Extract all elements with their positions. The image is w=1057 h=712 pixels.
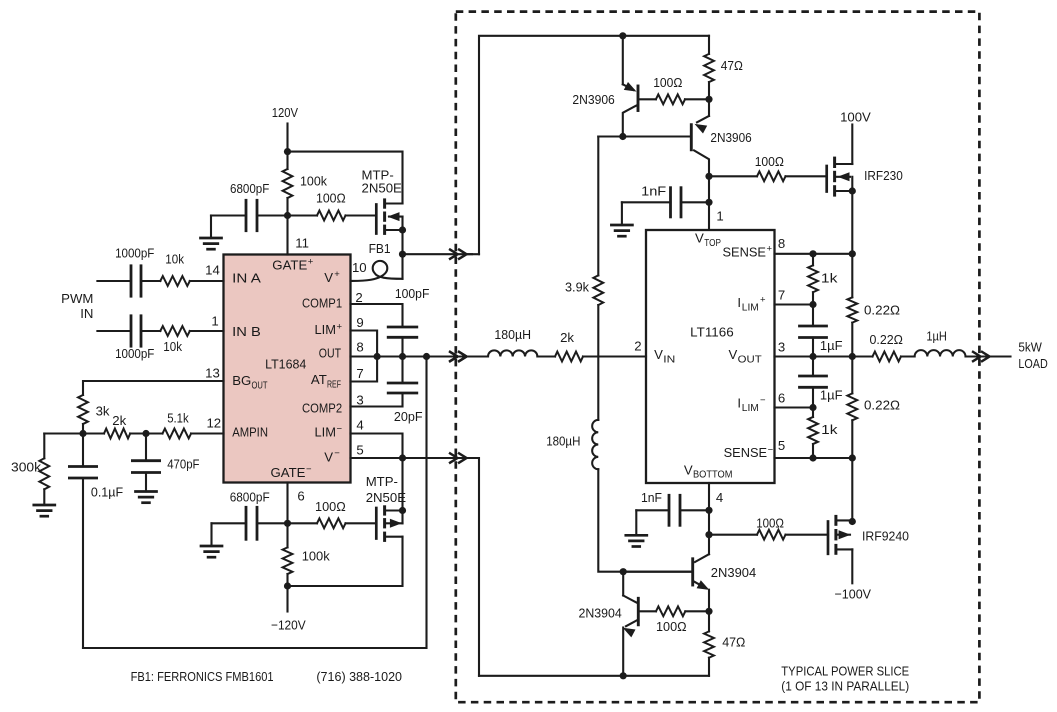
svg-text:5.1k: 5.1k — [167, 411, 189, 426]
svg-text:6: 6 — [297, 489, 304, 504]
svg-text:5: 5 — [356, 442, 363, 457]
svg-text:0.1µF: 0.1µF — [91, 485, 123, 500]
svg-text:0.22Ω: 0.22Ω — [864, 302, 900, 317]
svg-text:3.9k: 3.9k — [565, 280, 589, 295]
svg-text:6800pF: 6800pF — [230, 181, 269, 196]
svg-text:12: 12 — [206, 415, 221, 430]
svg-text:5: 5 — [778, 438, 785, 453]
svg-text:LT1684: LT1684 — [265, 356, 306, 371]
svg-text:10k: 10k — [165, 252, 184, 267]
svg-text:AT: AT — [311, 372, 327, 387]
svg-text:7: 7 — [356, 366, 363, 381]
svg-text:IN A: IN A — [232, 270, 261, 285]
svg-text:−: − — [334, 448, 340, 459]
svg-text:I: I — [737, 295, 741, 310]
svg-text:GATE: GATE — [271, 465, 306, 480]
svg-text:100Ω: 100Ω — [315, 499, 346, 514]
svg-text:0.22Ω: 0.22Ω — [870, 332, 904, 347]
svg-text:1000pF: 1000pF — [115, 246, 154, 261]
svg-text:GATE: GATE — [272, 258, 307, 273]
svg-text:4: 4 — [716, 490, 723, 505]
svg-text:3k: 3k — [96, 403, 110, 418]
svg-text:−: − — [337, 424, 343, 435]
svg-text:10: 10 — [352, 260, 367, 275]
svg-text:8: 8 — [356, 340, 363, 355]
svg-text:3: 3 — [356, 392, 363, 407]
svg-text:14: 14 — [205, 262, 220, 277]
svg-text:1µH: 1µH — [926, 329, 947, 344]
svg-text:120V: 120V — [272, 105, 298, 120]
svg-text:TOP: TOP — [704, 238, 721, 249]
svg-text:1k: 1k — [821, 271, 838, 286]
svg-text:+: + — [334, 269, 340, 280]
svg-text:4: 4 — [356, 417, 363, 432]
svg-text:BG: BG — [232, 373, 251, 388]
svg-text:SENSE: SENSE — [723, 244, 767, 259]
svg-text:10k: 10k — [163, 339, 182, 354]
svg-text:11: 11 — [295, 236, 309, 251]
svg-text:+: + — [308, 257, 314, 268]
svg-text:COMP2: COMP2 — [302, 400, 342, 415]
svg-text:V: V — [324, 449, 333, 464]
svg-text:V: V — [729, 347, 738, 362]
svg-text:IN B: IN B — [232, 324, 261, 339]
svg-text:6: 6 — [778, 391, 785, 406]
svg-text:LIM: LIM — [315, 322, 337, 337]
svg-text:2N3906: 2N3906 — [572, 92, 614, 107]
svg-text:2k: 2k — [112, 413, 126, 428]
svg-text:2N50E: 2N50E — [366, 490, 407, 505]
svg-text:1µF: 1µF — [820, 388, 843, 403]
svg-text:IN: IN — [80, 306, 93, 321]
svg-text:REF: REF — [327, 379, 341, 390]
svg-text:20pF: 20pF — [394, 409, 423, 424]
svg-text:I: I — [737, 396, 741, 411]
svg-text:13: 13 — [205, 366, 220, 381]
svg-text:3: 3 — [778, 339, 785, 354]
svg-text:1µF: 1µF — [820, 338, 843, 353]
svg-text:LIM: LIM — [742, 302, 759, 313]
svg-text:IN: IN — [663, 354, 675, 365]
svg-text:OUT: OUT — [738, 354, 762, 365]
svg-text:IRF9240: IRF9240 — [862, 528, 909, 543]
svg-text:2N3904: 2N3904 — [711, 565, 756, 580]
svg-text:6800pF: 6800pF — [230, 490, 270, 505]
svg-text:1: 1 — [716, 209, 723, 224]
svg-text:2k: 2k — [560, 330, 574, 345]
svg-text:47Ω: 47Ω — [722, 635, 745, 650]
svg-text:FB1: FERRONICS FMB1601: FB1: FERRONICS FMB1601 — [131, 669, 274, 684]
svg-text:2: 2 — [355, 290, 362, 305]
svg-text:OUT: OUT — [252, 380, 268, 391]
svg-text:−120V: −120V — [271, 618, 306, 633]
svg-text:COMP1: COMP1 — [302, 296, 342, 311]
svg-text:1nF: 1nF — [641, 183, 666, 198]
svg-text:9: 9 — [356, 315, 363, 330]
svg-text:(1 OF 13 IN PARALLEL): (1 OF 13 IN PARALLEL) — [781, 679, 909, 694]
svg-text:2N3906: 2N3906 — [710, 130, 751, 145]
svg-text:180µH: 180µH — [494, 327, 531, 342]
svg-text:2N3904: 2N3904 — [579, 605, 622, 620]
svg-text:SENSE: SENSE — [724, 445, 768, 460]
svg-text:100Ω: 100Ω — [653, 75, 682, 90]
svg-text:100Ω: 100Ω — [756, 516, 784, 531]
svg-text:AMPIN: AMPIN — [232, 424, 268, 439]
svg-text:BOTTOM: BOTTOM — [693, 470, 733, 481]
svg-text:100k: 100k — [300, 174, 327, 189]
svg-text:LOAD: LOAD — [1018, 356, 1047, 371]
svg-text:TYPICAL POWER SLICE: TYPICAL POWER SLICE — [781, 664, 909, 679]
svg-text:−100V: −100V — [835, 587, 872, 602]
svg-text:300k: 300k — [11, 460, 41, 475]
svg-text:100Ω: 100Ω — [755, 154, 784, 169]
svg-text:FB1: FB1 — [369, 241, 391, 256]
svg-text:100Ω: 100Ω — [656, 619, 687, 634]
svg-text:470pF: 470pF — [167, 457, 199, 472]
svg-text:1: 1 — [211, 314, 218, 329]
svg-text:MTP-: MTP- — [366, 474, 398, 489]
svg-text:7: 7 — [778, 287, 785, 302]
svg-text:8: 8 — [778, 236, 785, 251]
svg-text:+: + — [767, 244, 773, 255]
svg-text:2N50E: 2N50E — [362, 181, 403, 196]
svg-text:OUT: OUT — [319, 346, 341, 361]
svg-text:V: V — [684, 462, 693, 477]
svg-text:−: − — [306, 464, 312, 475]
svg-text:V: V — [654, 347, 663, 362]
svg-text:LIM: LIM — [315, 424, 337, 439]
svg-text:100Ω: 100Ω — [316, 191, 346, 206]
svg-text:−: − — [768, 444, 774, 455]
svg-text:100V: 100V — [840, 109, 871, 124]
svg-text:5kW: 5kW — [1018, 339, 1042, 354]
svg-text:47Ω: 47Ω — [721, 58, 743, 73]
svg-text:LIM: LIM — [742, 403, 759, 414]
svg-text:V: V — [324, 270, 333, 285]
svg-text:2: 2 — [634, 338, 641, 353]
svg-text:1k: 1k — [821, 422, 838, 437]
svg-text:LT1166: LT1166 — [690, 324, 734, 339]
svg-text:V: V — [695, 231, 704, 246]
svg-text:PWM: PWM — [61, 291, 93, 306]
svg-text:IRF230: IRF230 — [864, 168, 903, 183]
svg-text:+: + — [760, 295, 766, 306]
svg-text:(716) 388-1020: (716) 388-1020 — [316, 669, 402, 684]
svg-text:+: + — [337, 322, 343, 333]
svg-text:1nF: 1nF — [641, 490, 662, 505]
svg-text:100k: 100k — [302, 549, 330, 564]
svg-text:1000pF: 1000pF — [115, 346, 154, 361]
svg-text:100pF: 100pF — [395, 286, 430, 301]
svg-text:180µH: 180µH — [546, 433, 580, 448]
svg-text:−: − — [760, 395, 766, 406]
svg-text:0.22Ω: 0.22Ω — [864, 398, 900, 413]
